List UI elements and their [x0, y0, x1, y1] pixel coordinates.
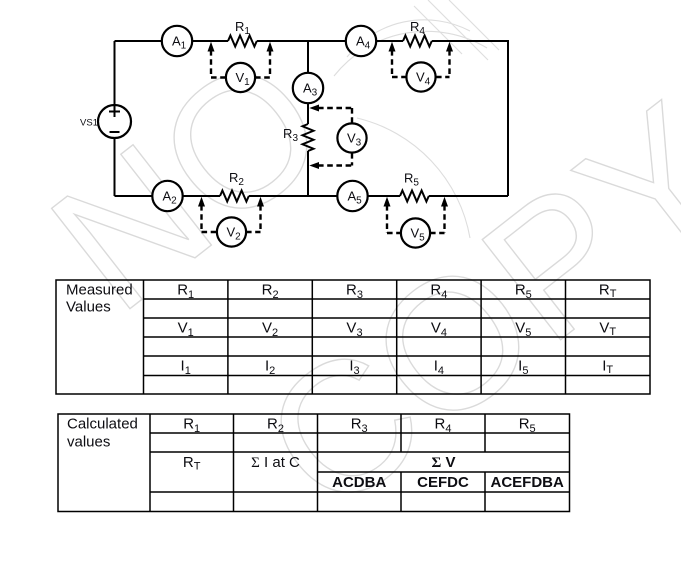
svg-text:Measured: Measured	[66, 282, 133, 299]
svg-text:VS1: VS1	[80, 118, 98, 129]
svg-text:I1: I1	[181, 358, 191, 378]
svg-text:R1: R1	[183, 416, 200, 436]
svg-text:IT: IT	[602, 358, 613, 377]
svg-text:Σ V: Σ V	[432, 454, 456, 471]
svg-text:R4: R4	[410, 19, 425, 37]
svg-text:Calculated: Calculated	[67, 416, 138, 433]
svg-text:R2: R2	[262, 282, 279, 302]
svg-text:CEFDC: CEFDC	[417, 474, 469, 491]
svg-text:values: values	[67, 434, 110, 451]
svg-text:V1: V1	[178, 320, 194, 340]
svg-text:Σ I at C: Σ I at C	[251, 454, 300, 471]
svg-text:R5: R5	[404, 171, 419, 189]
svg-text:ACEFDBA: ACEFDBA	[491, 474, 564, 491]
svg-text:RT: RT	[183, 454, 201, 473]
svg-text:Values: Values	[66, 299, 111, 316]
svg-text:R5: R5	[519, 416, 536, 436]
svg-text:V2: V2	[262, 320, 278, 340]
svg-text:ACDBA: ACDBA	[332, 474, 386, 491]
